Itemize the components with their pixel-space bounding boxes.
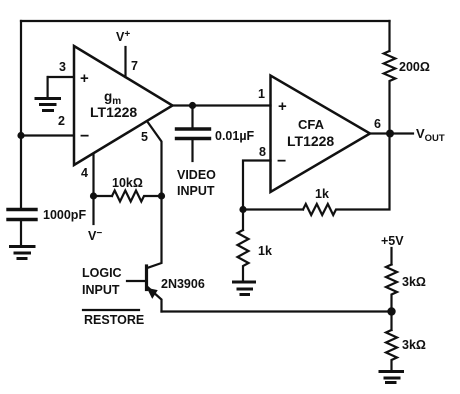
wire pin 2 — [21, 134, 73, 136]
svg-text:3: 3 — [59, 60, 66, 74]
svg-text:8: 8 — [259, 145, 266, 159]
svg-text:LT1228: LT1228 — [287, 133, 334, 149]
capacitor C 1000pF — [8, 208, 36, 211]
svg-text:6: 6 — [374, 117, 381, 131]
ground below 1000pF — [11, 247, 35, 259]
svg-text:CFA: CFA — [298, 117, 325, 132]
node gm output — [189, 102, 196, 109]
svg-text:1k: 1k — [258, 244, 272, 258]
ground below 3k — [380, 372, 403, 383]
wire pin 7 V+ — [124, 47, 126, 77]
wire left vertical — [20, 21, 22, 209]
wire pin 5 — [148, 123, 162, 197]
node feedback junction — [239, 206, 246, 213]
svg-text:2: 2 — [58, 114, 65, 128]
svg-text:INPUT: INPUT — [177, 184, 215, 198]
svg-text:VOUT: VOUT — [416, 126, 445, 144]
resistor R 3k upper — [386, 265, 397, 312]
resistor R 200ohm — [384, 21, 396, 134]
svg-text:200Ω: 200Ω — [399, 60, 430, 74]
node pin4 — [90, 192, 97, 199]
ground at pin 3 — [36, 77, 60, 111]
wire CFA output — [370, 132, 413, 134]
svg-text:V+: V+ — [116, 29, 130, 44]
wire gm output — [173, 104, 271, 106]
svg-text:1: 1 — [258, 87, 265, 101]
svg-text:VIDEO: VIDEO — [177, 168, 216, 182]
wire +5V stub — [390, 248, 392, 265]
op-amp U2 CFA LT1228 — [271, 76, 371, 193]
svg-text:−: − — [80, 128, 89, 145]
op-amp U1 gm LT1228 — [74, 46, 173, 165]
node pin2 junction — [17, 132, 24, 139]
transistor emitter arrow — [148, 289, 157, 298]
svg-text:10kΩ: 10kΩ — [112, 176, 143, 190]
svg-text:2N3906: 2N3906 — [161, 277, 205, 291]
transistor Q1 2N3906 — [147, 196, 162, 268]
svg-text:+: + — [80, 70, 89, 87]
wire top feedback bus — [21, 20, 390, 22]
wire pin 3 — [48, 76, 73, 78]
svg-text:−: − — [277, 153, 286, 170]
node VOUT — [386, 130, 394, 138]
wire feedback bottom — [243, 134, 390, 216]
wire pin 8 — [243, 161, 271, 210]
resistor R 10k — [94, 191, 162, 202]
wire pin 4 — [92, 154, 94, 196]
node divider — [387, 307, 395, 315]
svg-text:3kΩ: 3kΩ — [402, 338, 426, 352]
svg-text:1k: 1k — [315, 187, 329, 201]
ground below 1k — [234, 282, 255, 295]
svg-text:3kΩ: 3kΩ — [402, 275, 426, 289]
svg-text:LT1228: LT1228 — [90, 104, 137, 120]
svg-text:+: + — [278, 98, 287, 115]
svg-text:5: 5 — [141, 130, 148, 144]
svg-text:7: 7 — [131, 59, 138, 73]
resistor R 1k shunt — [238, 210, 249, 282]
svg-text:INPUT: INPUT — [82, 283, 120, 297]
capacitor C 0.01uF — [191, 106, 193, 128]
svg-text:LOGIC: LOGIC — [82, 266, 122, 280]
svg-text:RESTORE: RESTORE — [84, 313, 144, 327]
wire V- stub — [92, 196, 94, 224]
svg-text:1000pF: 1000pF — [43, 208, 86, 222]
svg-text:V−: V− — [88, 228, 102, 243]
restore overline — [83, 309, 139, 311]
svg-text:0.01µF: 0.01µF — [215, 129, 255, 143]
svg-text:4: 4 — [81, 166, 88, 180]
svg-text:+5V: +5V — [381, 234, 404, 248]
wire emitter to divider — [162, 310, 392, 312]
node pin5 — [158, 192, 165, 199]
resistor R 3k lower — [386, 312, 397, 371]
